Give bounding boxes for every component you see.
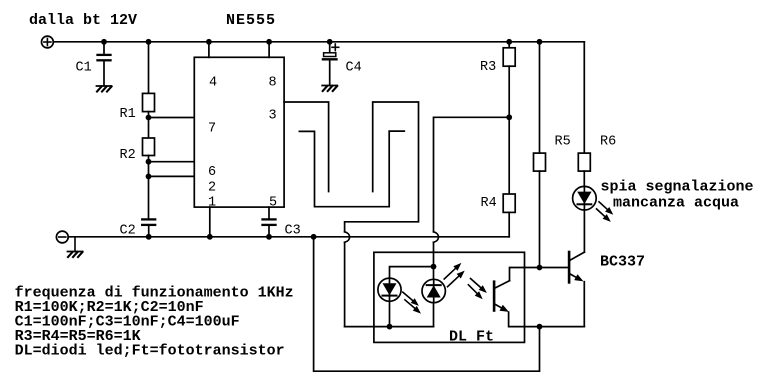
wire pin 4 stub xyxy=(208,42,210,58)
svg-text:NE555: NE555 xyxy=(226,12,276,29)
op-amp U1 NE555 body xyxy=(194,57,284,207)
optocoupler box DL/Ft xyxy=(374,252,525,342)
wire pin 2 xyxy=(149,175,195,177)
ground (at - terminal) xyxy=(68,237,83,257)
node D (R3/R4/opto feed) xyxy=(506,114,512,120)
svg-text:R1: R1 xyxy=(120,107,136,122)
wire top +12V rail xyxy=(53,41,584,43)
svg-text:R3: R3 xyxy=(480,60,496,75)
svg-text:2: 2 xyxy=(208,181,216,196)
resistor R6 xyxy=(578,153,590,171)
wire R1 to R2 xyxy=(148,112,150,138)
resistor R1 xyxy=(143,93,155,111)
terminal - (negative supply) xyxy=(56,231,68,243)
wire base of Q1 xyxy=(540,267,570,269)
node E (opto LED anodes) xyxy=(431,264,437,270)
resistor R3 xyxy=(503,42,515,118)
wire pin 3 output xyxy=(284,102,329,192)
transistor Q1 BC337 xyxy=(569,252,584,327)
node junction C2/gnd rail xyxy=(146,234,152,240)
node B (pin6 tap) xyxy=(146,159,152,165)
svg-text:8: 8 xyxy=(268,76,276,91)
wire R1 branch from rail xyxy=(148,42,150,94)
svg-text:R6: R6 xyxy=(600,135,616,150)
node junction pin4/top rail xyxy=(206,39,212,45)
light arrows DL1 xyxy=(403,292,421,314)
wire R5 branch xyxy=(539,42,541,153)
node junction gnd-drop/gnd rail xyxy=(311,234,317,240)
probe cup (water container symbol) xyxy=(299,131,404,207)
capacitor C4 (electrolytic) xyxy=(323,42,339,85)
ground (under C4) xyxy=(322,86,337,92)
node junction C4/top rail xyxy=(327,39,333,45)
svg-text:C3: C3 xyxy=(285,224,301,239)
light arrows DL2 xyxy=(444,263,465,287)
wire pin 1 to gnd rail xyxy=(209,207,211,237)
diode LED DL2 (emitting up-right) xyxy=(422,267,445,327)
wire pin 7 xyxy=(149,117,195,119)
node A (R1-R2, pin7) xyxy=(146,115,152,121)
node G (emitter/gnd return) xyxy=(537,324,543,330)
diode LED DL1 (emitting down-right) xyxy=(378,278,401,327)
svg-text:dalla bt 12V: dalla bt 12V xyxy=(29,12,137,29)
wire R5 to base node xyxy=(539,171,541,267)
node junction DL1 cathode xyxy=(387,324,393,330)
node junction pin1/gnd rail xyxy=(207,234,213,240)
svg-text:7: 7 xyxy=(208,122,216,137)
svg-text:3: 3 xyxy=(268,109,276,124)
svg-text:R2: R2 xyxy=(120,148,136,163)
node junction R3/top rail xyxy=(506,39,512,45)
svg-text:DL Ft: DL Ft xyxy=(449,329,494,346)
wire bottom gnd rail xyxy=(68,236,509,238)
svg-text:5: 5 xyxy=(269,196,277,211)
wire pin 8 stub xyxy=(268,42,270,58)
wire hop (opto feed over gnd rail at x=433.5) xyxy=(434,232,439,243)
wire LED cathodes row xyxy=(345,326,434,328)
light arrows into phototransistor xyxy=(468,279,487,300)
wire electrode down to opto LEDs xyxy=(344,242,346,326)
terminal + (positive supply) xyxy=(42,36,54,48)
probe electrode right pair top xyxy=(345,102,419,232)
capacitor C1 xyxy=(98,42,111,86)
wire emitter to gnd node xyxy=(540,326,585,328)
node junction R5/top rail xyxy=(537,39,543,45)
wire R2 down to C2 xyxy=(148,156,150,219)
svg-text:R5: R5 xyxy=(555,135,571,150)
wire node D to opto column xyxy=(434,117,510,232)
resistor R2 xyxy=(143,138,155,156)
wire R6 to LED xyxy=(583,171,585,186)
ground (under C1) xyxy=(97,86,112,92)
svg-text:6: 6 xyxy=(208,165,216,180)
wire gnd drop to bottom return xyxy=(314,237,540,371)
svg-text:4: 4 xyxy=(209,76,217,91)
svg-text:C4: C4 xyxy=(346,61,362,76)
wire opto feed into box xyxy=(433,242,435,266)
wire LED anode branch xyxy=(390,267,434,280)
svg-text:DL=diodi led;Ft=fototransistor: DL=diodi led;Ft=fototransistor xyxy=(15,342,285,359)
transistor Ft (phototransistor) xyxy=(494,268,539,327)
node C (pin2 tap) xyxy=(146,174,152,180)
node junction R1/top rail xyxy=(146,39,152,45)
svg-text:mancanza acqua: mancanza acqua xyxy=(613,195,739,212)
light arrows LED spia xyxy=(597,202,614,222)
node junction C3/gnd rail xyxy=(266,234,272,240)
wire hop (electrode wire over gnd rail at x=344.6) xyxy=(345,232,350,243)
svg-text:spia segnalazione: spia segnalazione xyxy=(601,179,754,196)
diode LED spia (indicator) xyxy=(573,186,597,252)
node F (base/collector of opto) xyxy=(537,265,543,271)
node junction C1/top rail xyxy=(101,39,107,45)
node junction pin8/top rail xyxy=(266,39,272,45)
wire R6 branch xyxy=(583,42,585,153)
wire pin 6 xyxy=(149,161,195,163)
svg-text:C1: C1 xyxy=(76,61,92,76)
svg-text:R4: R4 xyxy=(481,196,497,211)
capacitor C2 xyxy=(142,219,155,236)
resistor R5 xyxy=(534,153,546,171)
svg-text:BC337: BC337 xyxy=(600,254,645,271)
resistor R4 xyxy=(503,117,515,237)
capacitor C3 xyxy=(263,207,276,237)
